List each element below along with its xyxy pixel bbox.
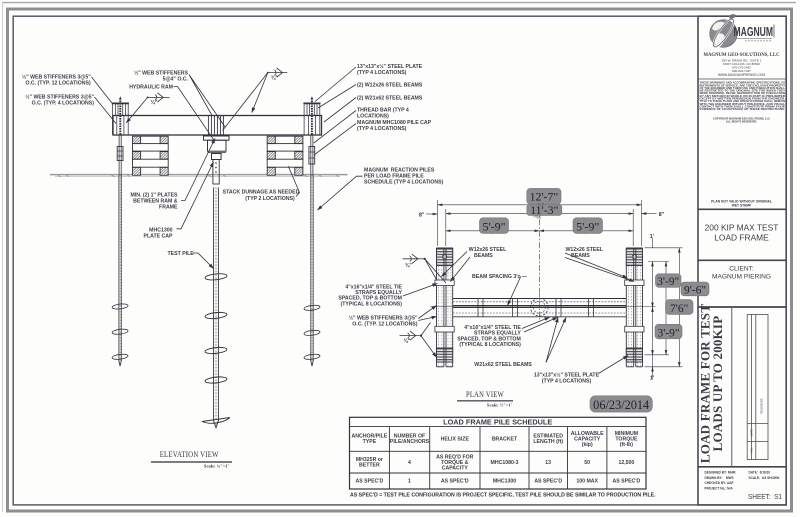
left thread bar xyxy=(119,98,121,135)
svg-text:MAGNUM PIERING: MAGNUM PIERING xyxy=(712,274,771,281)
svg-text:PER LOAD FRAME PILE: PER LOAD FRAME PILE xyxy=(364,174,424,180)
right side connectors xyxy=(645,247,683,249)
svg-text:WWW.MAGNUMPIERING.COM: WWW.MAGNUMPIERING.COM xyxy=(718,73,766,77)
svg-text:13"x13"x½" STEEL PLATE: 13"x13"x½" STEEL PLATE xyxy=(534,371,600,378)
svg-text:LOAD FRAME: LOAD FRAME xyxy=(714,233,769,243)
dim line 12'-7" xyxy=(438,204,642,206)
svg-text:3'-9": 3'-9" xyxy=(657,327,679,339)
svg-text:CAPACITY: CAPACITY xyxy=(442,465,469,471)
plan labels xyxy=(469,247,604,368)
svg-text:4: 4 xyxy=(408,460,411,466)
svg-text:DRAWN BY: MWS: DRAWN BY: MWS xyxy=(705,476,734,480)
title block border xyxy=(698,16,786,505)
plan dimensions xyxy=(426,200,683,379)
svg-text:16: 16 xyxy=(536,215,541,220)
svg-text:REVISIONS: REVISIONS xyxy=(760,398,764,413)
rotated project title xyxy=(698,304,725,463)
svg-text:50: 50 xyxy=(584,460,590,466)
scan edge line top xyxy=(2,2,796,4)
svg-text:MHC1080-3: MHC1080-3 xyxy=(491,460,519,466)
svg-text:W12x26 STEEL: W12x26 STEEL xyxy=(469,247,507,253)
svg-text:100 MAX: 100 MAX xyxy=(576,479,598,485)
svg-text:11'-3": 11'-3" xyxy=(530,203,558,217)
svg-text:PLAN VIEW: PLAN VIEW xyxy=(466,390,504,399)
svg-text:9'-6": 9'-6" xyxy=(684,285,706,297)
svg-text:(TYP 4 LOCATIONS): (TYP 4 LOCATIONS) xyxy=(357,126,407,132)
stamp 12'-7" xyxy=(527,188,561,204)
svg-text:MHC1300: MHC1300 xyxy=(149,228,172,234)
svg-text:8": 8" xyxy=(659,212,665,218)
vertical dim lines right xyxy=(652,262,654,355)
svg-text:BRACKET: BRACKET xyxy=(492,437,518,443)
right thread bar xyxy=(311,98,313,135)
svg-text:SCALE: AS SHOWN: SCALE: AS SHOWN xyxy=(749,476,780,480)
svg-text:12'-7": 12'-7" xyxy=(530,189,559,203)
svg-text:HYDRAULIC RAM: HYDRAULIC RAM xyxy=(129,85,173,91)
svg-text:LOADS UP TO 200KIP: LOADS UP TO 200KIP xyxy=(710,316,725,452)
test pile square shaft xyxy=(214,188,219,422)
left column tie strap bands xyxy=(435,280,454,286)
date stamp 06/23/2014 xyxy=(590,396,652,412)
main beam W21x62 xyxy=(113,116,322,136)
stamp 3'-9" top xyxy=(656,274,682,288)
plan leader lines xyxy=(403,252,634,374)
svg-text:5'-9": 5'-9" xyxy=(482,220,505,234)
right column tie strap bands xyxy=(625,280,644,286)
right stiffener group xyxy=(303,103,320,134)
svg-text:O.C. (TYP. 12 LOCATIONS): O.C. (TYP. 12 LOCATIONS) xyxy=(25,81,91,87)
svg-text:(TYP 2 LOCATIONS): (TYP 2 LOCATIONS) xyxy=(245,196,295,202)
left reaction pile below ground xyxy=(112,175,128,366)
svg-text:MAGNUM MHC1080 PILE CAP: MAGNUM MHC1080 PILE CAP xyxy=(357,120,432,126)
divider thick xyxy=(698,306,786,308)
svg-text:¾": ¾" xyxy=(405,262,412,269)
svg-text:PLATE CAP: PLATE CAP xyxy=(143,234,173,240)
stamp 9'-6" xyxy=(681,282,709,296)
ground line xyxy=(50,174,348,176)
stamp 5'-9" right xyxy=(573,218,603,234)
svg-text:¾": ¾" xyxy=(151,99,158,106)
drawn-by block xyxy=(705,471,780,491)
svg-text:06/23/2014: 06/23/2014 xyxy=(593,398,649,412)
ground tufts xyxy=(57,175,339,177)
svg-text:(2) W12x26 STEEL BEAMS: (2) W12x26 STEEL BEAMS xyxy=(357,83,423,89)
svg-text:½" WEB STIFFENERS 3@5": ½" WEB STIFFENERS 3@5" xyxy=(22,73,91,80)
left stiffener group (W12x26 end view) xyxy=(112,103,129,134)
svg-text:(TYPICAL 8 LOCATIONS): (TYPICAL 8 LOCATIONS) xyxy=(341,301,403,307)
right column members W12x26 (plan) xyxy=(626,248,642,367)
svg-text:MHC1300: MHC1300 xyxy=(493,479,516,485)
divider thick xyxy=(698,259,786,261)
svg-text:8": 8" xyxy=(419,212,425,218)
svg-text:(2) W21x62 STEEL BEAMS: (2) W21x62 STEEL BEAMS xyxy=(357,96,423,102)
scan edge line left xyxy=(2,2,4,512)
client xyxy=(712,266,771,281)
svg-text:Scale: ¾"=1': Scale: ¾"=1' xyxy=(204,464,229,469)
svg-text:5'-9": 5'-9" xyxy=(576,220,599,234)
left column pile caps (hatched) xyxy=(437,248,453,265)
svg-text:7'6": 7'6" xyxy=(670,303,688,315)
plan not valid note xyxy=(711,200,772,208)
svg-text:NO.: NO. xyxy=(749,447,753,452)
svg-text:AS SPEC'D: AS SPEC'D xyxy=(441,479,469,485)
svg-text:PILE/ANCHORS: PILE/ANCHORS xyxy=(390,439,430,445)
center vertical dashed line xyxy=(538,293,540,323)
svg-text:BETTER: BETTER xyxy=(359,462,380,468)
svg-text:¾": ¾" xyxy=(271,74,278,81)
weld symbol plan top-left xyxy=(403,254,447,283)
1' small dim bottom xyxy=(652,355,654,379)
svg-text:BEAMS: BEAMS xyxy=(474,253,493,259)
svg-text:W12x26 STEEL: W12x26 STEEL xyxy=(566,247,604,253)
left dunnage stack xyxy=(133,136,169,175)
stamp 7'6" xyxy=(666,300,694,315)
svg-text:W21x62 STEEL BEAMS: W21x62 STEEL BEAMS xyxy=(474,362,532,368)
tie straps on beam xyxy=(478,299,594,317)
svg-text:DESIGNED BY: MHM: DESIGNED BY: MHM xyxy=(705,471,736,475)
test pile helices xyxy=(202,273,230,428)
beam centerline extended xyxy=(431,306,656,308)
8" side dims xyxy=(426,213,438,215)
svg-text:1': 1' xyxy=(650,234,654,240)
right column pile caps (hatched) xyxy=(626,248,642,265)
sheet title xyxy=(705,223,779,243)
svg-text:AS SPEC'D: AS SPEC'D xyxy=(356,479,384,485)
svg-text:Scale: ½"=1': Scale: ½"=1' xyxy=(487,403,512,408)
svg-text:WET STAMP: WET STAMP xyxy=(732,204,752,208)
member lines over caps (right) xyxy=(634,248,636,362)
svg-text:5@4" O.C.: 5@4" O.C. xyxy=(163,77,189,83)
svg-text:O.C. (TYP. 12 LOCATIONS): O.C. (TYP. 12 LOCATIONS) xyxy=(352,321,418,327)
svg-text:(TYP 4 LOCATIONS): (TYP 4 LOCATIONS) xyxy=(357,70,407,76)
MAGNUM logo globe xyxy=(710,14,738,49)
MHC1300 plate cap sleeve xyxy=(213,160,219,185)
svg-text:(TYPICAL 8 LOCATIONS): (TYPICAL 8 LOCATIONS) xyxy=(459,342,521,348)
svg-text:O.C. (TYP. 4 LOCATIONS): O.C. (TYP. 4 LOCATIONS) xyxy=(32,101,95,107)
svg-text:AS SPEC'D: AS SPEC'D xyxy=(534,479,562,485)
extension lines xyxy=(437,200,439,246)
svg-text:13"x13"x½" STEEL PLATE: 13"x13"x½" STEEL PLATE xyxy=(357,63,423,70)
svg-text:DATE: 6/16/10: DATE: 6/16/10 xyxy=(749,471,771,475)
left column members W12x26 (plan) xyxy=(437,248,453,367)
svg-text:TEST PILE: TEST PILE xyxy=(168,251,195,257)
dim lines 5'-9" xyxy=(446,230,540,232)
svg-text:3'-9": 3'-9" xyxy=(657,276,679,288)
legal paragraph xyxy=(700,81,786,112)
svg-text:LOAD FRAME PILE SCHEDULE: LOAD FRAME PILE SCHEDULE xyxy=(443,418,552,427)
svg-text:SHEET: S1: SHEET: S1 xyxy=(748,492,782,501)
divider thick xyxy=(698,208,786,210)
svg-text:BEAMS: BEAMS xyxy=(571,253,590,259)
weld symbol plan left xyxy=(400,323,437,358)
1' small dim top right xyxy=(652,238,654,248)
svg-text:CHECKED BY: AAP: CHECKED BY: AAP xyxy=(705,481,734,485)
svg-text:LENGTH (ft): LENGTH (ft) xyxy=(533,439,563,445)
svg-text:½" WEB STIFFENERS: ½" WEB STIFFENERS xyxy=(134,69,189,76)
weld symbol top center xyxy=(223,68,288,131)
svg-text:LOCATIONS): LOCATIONS) xyxy=(357,114,389,120)
svg-text:MIN. (2) 1" PLATES: MIN. (2) 1" PLATES xyxy=(130,192,178,198)
svg-text:200 KIP MAX TEST: 200 KIP MAX TEST xyxy=(705,223,779,233)
svg-text:THREAD BAR (TYP 4: THREAD BAR (TYP 4 xyxy=(357,108,409,114)
beam band W21x62 (plan) xyxy=(453,298,627,300)
elevation leader lines xyxy=(92,67,363,269)
stamp 5'-9" left xyxy=(480,218,509,234)
address block xyxy=(718,59,766,78)
svg-text:½" WEB STIFFENERS 3@5": ½" WEB STIFFENERS 3@5" xyxy=(349,314,418,321)
svg-text:FRAME: FRAME xyxy=(159,205,178,211)
svg-text:13: 13 xyxy=(545,460,551,466)
svg-text:1'-7: 1'-7 xyxy=(537,203,545,208)
right reaction pile below ground xyxy=(304,175,320,366)
original dim text fragments peeking from under stamps xyxy=(490,200,588,235)
svg-text:MAGNUM GEO-SOLUTIONS, LLC: MAGNUM GEO-SOLUTIONS, LLC xyxy=(704,52,780,58)
svg-text:12,500: 12,500 xyxy=(618,460,634,466)
svg-text:EVIDENCE OF ACCEPTANCE OF THES: EVIDENCE OF ACCEPTANCE OF THESE RESTRICT… xyxy=(700,107,786,111)
svg-text:½" WEB STIFFENERS 3@5": ½" WEB STIFFENERS 3@5" xyxy=(25,93,94,100)
svg-text:TYPE: TYPE xyxy=(363,439,377,445)
svg-text:PROJECT No.: N/A: PROJECT No.: N/A xyxy=(705,486,734,490)
svg-text:(TYP 4 LOCATIONS): (TYP 4 LOCATIONS) xyxy=(542,379,592,385)
stamp 3'-9" bottom xyxy=(655,324,682,339)
right bar coupler xyxy=(309,147,315,165)
svg-text:CLIENT:: CLIENT: xyxy=(729,266,754,273)
right dunnage stack xyxy=(267,136,303,175)
svg-text:STACK DUNNAGE AS NEEDED: STACK DUNNAGE AS NEEDED xyxy=(223,190,300,196)
divider thick xyxy=(698,466,786,468)
member lines over caps (left) xyxy=(444,248,446,362)
svg-text:ALL RIGHTS RESERVED.: ALL RIGHTS RESERVED. xyxy=(726,120,757,124)
elevation labels xyxy=(22,69,189,239)
svg-text:ELEVATION VIEW: ELEVATION VIEW xyxy=(160,450,219,459)
divider xyxy=(698,78,786,80)
left bar coupler xyxy=(117,147,123,161)
hydraulic ram assembly xyxy=(204,136,230,160)
dim line 11'-3" xyxy=(446,213,633,215)
revisions table xyxy=(747,315,768,460)
svg-text:AS SPEC'D = TEST PILE CONFIGUR: AS SPEC'D = TEST PILE CONFIGURATION IS P… xyxy=(350,492,656,498)
center pile dashed circles xyxy=(531,298,549,316)
svg-text:HELIX SIZE: HELIX SIZE xyxy=(441,437,470,443)
stamp 11'-3" xyxy=(527,204,562,215)
svg-text:AS SPEC'D: AS SPEC'D xyxy=(613,479,641,485)
svg-text:1: 1 xyxy=(408,479,411,485)
svg-text:BETWEEN RAM &: BETWEEN RAM & xyxy=(133,199,178,205)
svg-text:(kip): (kip) xyxy=(582,442,593,448)
svg-text:¾": ¾" xyxy=(404,338,411,345)
svg-text:SCHEDULE (TYP 4 LOCATIONS): SCHEDULE (TYP 4 LOCATIONS) xyxy=(364,180,444,186)
svg-text:DATE: DATE xyxy=(749,429,753,436)
vertical divider in middle section xyxy=(731,307,733,467)
svg-text:(ft-lb): (ft-lb) xyxy=(620,442,634,448)
center stiffeners 5@4 in beam xyxy=(208,116,223,136)
svg-text:BEAM SPACING 3'± —: BEAM SPACING 3'± — xyxy=(472,274,528,280)
svg-text:MAGNUM REACTION PILES: MAGNUM REACTION PILES xyxy=(364,167,435,173)
svg-text:MAGNUM: MAGNUM xyxy=(734,25,774,39)
svg-text:1': 1' xyxy=(650,376,654,382)
weld symbol left xyxy=(126,93,169,123)
